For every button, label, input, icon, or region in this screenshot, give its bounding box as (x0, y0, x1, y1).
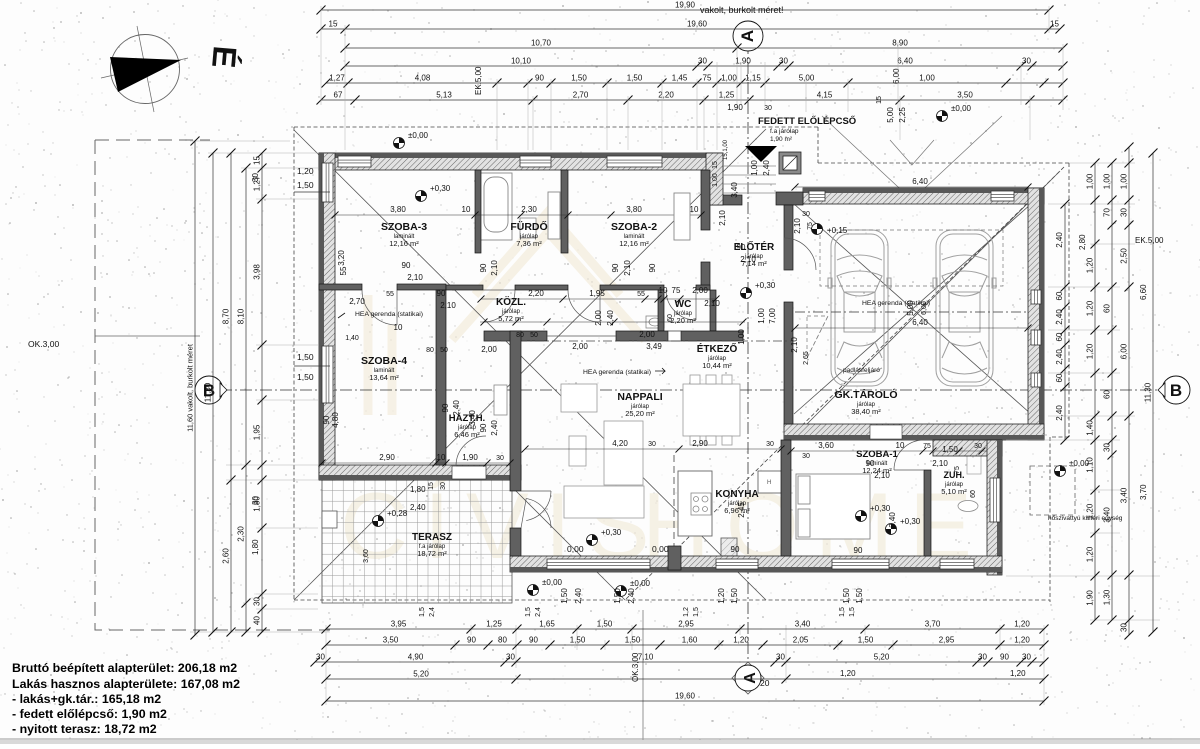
svg-text:1,20: 1,20 (1010, 669, 1026, 678)
door házt.h. to terrace opening (452, 466, 486, 479)
roof diagonal to bottom-right (794, 171, 1060, 437)
svg-text:1,50: 1,50 (730, 588, 739, 604)
svg-text:3,95: 3,95 (391, 620, 407, 629)
elevation mark (886, 517, 921, 535)
wall zuh north jog (933, 440, 1002, 456)
svg-text:B: B (1170, 381, 1182, 400)
svg-text:1,50: 1,50 (570, 636, 586, 645)
dim left col3 (222, 149, 236, 637)
svg-text:2,40: 2,40 (606, 310, 615, 326)
window zuh south (940, 559, 974, 569)
svg-text:0,00: 0,00 (567, 544, 584, 554)
room label SZOBA-1 (856, 449, 898, 475)
svg-text:2,10: 2,10 (790, 337, 799, 353)
door konyha south (716, 559, 758, 569)
wall szoba-2 / előtér upper (701, 170, 710, 230)
room label ELŐTÉR (734, 240, 775, 268)
internal dim line nappali (525, 448, 781, 450)
roof diagonal long A (294, 130, 766, 600)
svg-text:2,80: 2,80 (1078, 234, 1087, 250)
svg-text:3,70: 3,70 (925, 620, 941, 629)
section axis A vertical (747, 22, 749, 692)
section marker A top (733, 21, 763, 51)
svg-text:3,60: 3,60 (363, 549, 370, 563)
internal dim line közl bottom row (481, 319, 488, 326)
svg-text:18,72 m²: 18,72 m² (417, 549, 447, 558)
svg-text:2,05: 2,05 (793, 636, 809, 645)
outer wall west (319, 153, 335, 480)
svg-text:30: 30 (978, 653, 987, 662)
svg-text:4,80: 4,80 (331, 412, 340, 428)
terrace TERASZ tile grid (322, 480, 512, 603)
section axis B horizontal (200, 389, 1185, 391)
svg-text:12,16 m²: 12,16 m² (389, 239, 419, 248)
svg-text:90: 90 (611, 263, 620, 272)
dim top row3 (341, 39, 1068, 53)
svg-text:3,40: 3,40 (888, 512, 897, 528)
garage roof diagonal 1 (794, 204, 1031, 414)
svg-text:1,95: 1,95 (253, 424, 262, 440)
svg-text:1,40: 1,40 (345, 335, 359, 342)
shower zuh (958, 449, 981, 512)
room label ÉTKEZŐ (697, 342, 738, 370)
svg-text:5,20: 5,20 (413, 670, 429, 679)
svg-text:+0,30: +0,30 (870, 504, 891, 513)
svg-text:1,27: 1,27 (329, 74, 345, 83)
svg-text:30: 30 (779, 57, 788, 66)
svg-text:1,50: 1,50 (297, 372, 314, 382)
door zuh east (990, 478, 1000, 522)
radiator előtér (674, 193, 690, 240)
dim top row1 (317, 1, 1054, 15)
outer wall north main (319, 153, 723, 170)
eaves outline dashed (294, 127, 1069, 602)
roof hip diagonal dashed (625, 167, 1064, 600)
svg-text:11,30: 11,30 (1144, 382, 1153, 402)
svg-text:15: 15 (329, 20, 338, 29)
svg-text:30: 30 (1120, 208, 1129, 217)
svg-text:hőszivattyú kültéri egység: hőszivattyú kültéri egység (1048, 515, 1123, 522)
svg-text:1,20: 1,20 (1086, 257, 1095, 273)
wall előtér east (784, 205, 793, 270)
svg-text:8,10: 8,10 (237, 308, 246, 324)
wall étkező north right (681, 331, 743, 341)
svg-text:3,70: 3,70 (1139, 484, 1148, 500)
wall konyha / szoba-1 (781, 440, 791, 556)
svg-text:90: 90 (479, 263, 488, 272)
svg-text:1,90: 1,90 (1086, 590, 1095, 606)
svg-text:10,44 m²: 10,44 m² (702, 361, 732, 370)
svg-text:2,10: 2,10 (623, 260, 632, 276)
svg-text:1,50: 1,50 (560, 588, 569, 604)
porch roof valley lines (822, 116, 1002, 200)
dim bottom row2 (322, 636, 1049, 650)
svg-text:1,20: 1,20 (733, 636, 749, 645)
internal dim line közl top row (481, 298, 716, 300)
svg-text:80: 80 (498, 636, 507, 645)
dim top row2 (317, 20, 1065, 34)
washbasin fürdő (520, 218, 536, 238)
svg-text:1,50: 1,50 (297, 180, 314, 190)
internal dim line garage top (795, 186, 1028, 188)
svg-text:30: 30 (1022, 57, 1031, 66)
svg-text:2,10: 2,10 (718, 210, 727, 226)
svg-text:1,5: 1,5 (849, 607, 856, 617)
svg-text:30: 30 (802, 211, 810, 218)
elevation mark (937, 104, 972, 122)
svg-text:60: 60 (1103, 304, 1112, 313)
dim right col4 (1120, 143, 1134, 640)
svg-text:90: 90 (737, 243, 746, 252)
window nappali south (547, 559, 650, 569)
svg-text:1,20: 1,20 (1086, 300, 1095, 316)
elevation mark (856, 504, 891, 522)
svg-text:1,50: 1,50 (597, 620, 613, 629)
north compass (101, 26, 188, 112)
corner window north leg (338, 156, 371, 167)
svg-text:2,50: 2,50 (1120, 248, 1129, 264)
room label KONYHA (715, 489, 758, 515)
heat pump dashed box (1030, 466, 1075, 515)
svg-text:2,40: 2,40 (627, 588, 636, 604)
room label KÖZL. (496, 295, 526, 323)
door szoba-2 (568, 290, 600, 322)
svg-text:1,00: 1,00 (1120, 173, 1129, 189)
svg-text:+0,15: +0,15 (827, 226, 848, 235)
svg-text:15: 15 (712, 161, 719, 169)
svg-text:75: 75 (807, 222, 814, 230)
svg-text:30: 30 (764, 105, 772, 112)
wall garage south (784, 424, 1044, 440)
garage north gap 1 (809, 191, 825, 201)
svg-text:3,98: 3,98 (253, 264, 262, 280)
svg-text:3,49: 3,49 (646, 342, 662, 351)
svg-text:+0,30: +0,30 (601, 528, 622, 537)
svg-text:SZOBA-2: SZOBA-2 (611, 221, 657, 233)
dim left col2 (204, 149, 218, 637)
svg-text:2,90: 2,90 (692, 439, 708, 448)
svg-text:7,10: 7,10 (638, 653, 654, 662)
svg-text:1,00: 1,00 (750, 160, 759, 176)
svg-text:13,64 m²: 13,64 m² (369, 373, 399, 382)
svg-text:±0,00: ±0,00 (542, 578, 563, 587)
svg-text:H: H (767, 480, 771, 486)
svg-text:30: 30 (974, 443, 982, 450)
svg-text:60: 60 (1055, 291, 1064, 300)
wall közl north 2 (515, 285, 568, 290)
garage east window 3 (1031, 373, 1041, 387)
svg-text:10,70: 10,70 (531, 39, 552, 48)
svg-text:15: 15 (253, 156, 262, 165)
svg-text:60: 60 (1103, 390, 1112, 399)
svg-text:5,13: 5,13 (436, 91, 452, 100)
svg-text:2,10: 2,10 (793, 218, 802, 234)
svg-text:1,50: 1,50 (855, 588, 864, 604)
svg-text:10: 10 (394, 323, 403, 332)
svg-text:2,00: 2,00 (692, 286, 708, 295)
svg-text:1,00: 1,00 (712, 173, 719, 187)
svg-text:+0,30: +0,30 (755, 281, 776, 290)
room label SZOBA-2 (611, 221, 657, 248)
svg-text:1,90 m²: 1,90 m² (770, 136, 793, 143)
svg-text:1,30: 1,30 (1103, 589, 1112, 605)
svg-text:3,40: 3,40 (795, 620, 811, 629)
házt.h. appliances (494, 385, 507, 415)
svg-text:1,50: 1,50 (625, 636, 641, 645)
svg-text:6,40: 6,40 (912, 318, 928, 327)
outer wall south (510, 556, 1002, 572)
wall szoba-3 / szoba-4 right (397, 284, 446, 290)
svg-text:1,45: 1,45 (672, 74, 688, 83)
kitchen counter (678, 471, 783, 556)
svg-text:1,20: 1,20 (1014, 636, 1030, 645)
svg-text:ÉTKEZŐ: ÉTKEZŐ (697, 342, 738, 355)
car 1 in garage (828, 230, 891, 386)
svg-text:2,70: 2,70 (573, 91, 589, 100)
svg-text:15: 15 (428, 482, 435, 490)
svg-text:30: 30 (1120, 623, 1129, 632)
svg-text:90: 90 (529, 636, 538, 645)
svg-text:2,10: 2,10 (874, 471, 890, 480)
svg-text:1,25: 1,25 (719, 91, 735, 100)
bottom scan band (0, 738, 1200, 740)
svg-text:75: 75 (923, 443, 931, 450)
beam axis étkező (484, 340, 793, 342)
svg-text:90: 90 (402, 261, 411, 270)
svg-text:2,10: 2,10 (704, 299, 720, 308)
internal dim line szoba-4 (322, 462, 510, 464)
entrance arrow triangle (745, 146, 777, 162)
svg-text:FEDETT ELŐLÉPCSŐ: FEDETT ELŐLÉPCSŐ (758, 115, 856, 127)
svg-text:90: 90 (1000, 653, 1009, 662)
svg-text:10: 10 (690, 205, 699, 214)
room label HÁZT.H. (449, 413, 485, 439)
svg-text:50: 50 (440, 347, 448, 354)
svg-text:1,00: 1,00 (919, 74, 935, 83)
section marker A bottom (732, 662, 770, 694)
svg-text:6,40: 6,40 (897, 57, 913, 66)
svg-text:90: 90 (731, 545, 740, 554)
room label TERASZ (412, 532, 452, 558)
svg-text:2,00: 2,00 (572, 342, 588, 351)
svg-text:30: 30 (496, 455, 504, 462)
svg-text:NAPPALI: NAPPALI (617, 391, 662, 403)
svg-text:20: 20 (760, 678, 770, 688)
svg-text:10: 10 (659, 286, 668, 295)
svg-text:2,40: 2,40 (1055, 309, 1064, 325)
svg-text:SZOBA-4: SZOBA-4 (361, 355, 407, 367)
svg-text:TERASZ: TERASZ (412, 532, 452, 543)
svg-text:2,00: 2,00 (639, 330, 655, 339)
svg-text:6,00: 6,00 (1120, 343, 1129, 359)
window szoba-2 north (607, 156, 662, 167)
svg-text:90: 90 (322, 415, 331, 424)
dim left col1 (186, 137, 200, 640)
svg-text:8,70: 8,70 (222, 308, 231, 324)
elevation mark (587, 528, 622, 546)
room label ZUH. (941, 470, 967, 496)
svg-text:40: 40 (253, 616, 262, 625)
svg-text:A: A (742, 672, 759, 684)
wall szoba-1 / zuh (924, 470, 931, 556)
svg-text:2,10: 2,10 (440, 301, 456, 310)
svg-text:+0,28: +0,28 (387, 509, 408, 518)
svg-text:90: 90 (467, 636, 476, 645)
svg-text:2,30: 2,30 (237, 526, 246, 542)
north needle (110, 57, 181, 92)
dim right col3 (1103, 159, 1117, 625)
svg-text:15: 15 (876, 96, 883, 104)
svg-text:90: 90 (866, 459, 875, 468)
svg-text:2,65: 2,65 (803, 351, 810, 365)
svg-text:5,10 m²: 5,10 m² (941, 487, 967, 496)
svg-text:GK.TÁROLÓ: GK.TÁROLÓ (835, 388, 898, 401)
car 2 in garage (933, 230, 996, 386)
svg-text:6,60: 6,60 (1139, 284, 1148, 300)
svg-text:0,00: 0,00 (652, 544, 669, 554)
svg-text:1,00: 1,00 (1103, 173, 1112, 189)
svg-text:19,60: 19,60 (687, 20, 708, 29)
svg-text:6,00: 6,00 (921, 301, 928, 315)
svg-text:3,80: 3,80 (390, 205, 406, 214)
dim bottom row1 (322, 620, 1049, 634)
svg-text:4,15: 4,15 (817, 91, 833, 100)
terrace door leaf 2 (521, 498, 551, 528)
beam dashdot through garage (795, 311, 1028, 313)
svg-text:80: 80 (516, 332, 524, 339)
svg-text:2,00: 2,00 (481, 345, 497, 354)
svg-text:12,16 m²: 12,16 m² (619, 239, 649, 248)
section marker B right (1158, 376, 1190, 404)
svg-text:2,10: 2,10 (740, 255, 756, 264)
svg-text:30: 30 (1103, 443, 1112, 452)
porch column (779, 152, 801, 174)
svg-text:EK.5,00: EK.5,00 (1135, 236, 1164, 245)
outer wall garage north (803, 188, 1044, 204)
svg-text:1,80: 1,80 (251, 539, 260, 555)
svg-text:1,00: 1,00 (721, 74, 737, 83)
svg-text:3,50: 3,50 (383, 636, 399, 645)
svg-text:55: 55 (386, 291, 394, 298)
svg-text:SZOBA-3: SZOBA-3 (381, 221, 427, 233)
svg-text:2,20: 2,20 (658, 91, 674, 100)
porch wall (706, 153, 723, 205)
wall szoba-2 / előtér lower (701, 262, 710, 290)
svg-text:±0,00: ±0,00 (951, 104, 972, 113)
nappali sofa group (561, 384, 644, 518)
svg-text:60: 60 (1055, 332, 1064, 341)
svg-text:±0,00: ±0,00 (408, 131, 429, 140)
svg-text:3,80: 3,80 (626, 205, 642, 214)
dim right col 11,30 (1144, 149, 1158, 637)
wall közl north 4 (696, 285, 710, 290)
svg-text:75: 75 (672, 286, 681, 295)
svg-text:1,20: 1,20 (297, 166, 314, 176)
svg-text:60: 60 (1055, 373, 1064, 382)
wall szoba-3 / szoba-4 left (319, 284, 362, 290)
garage east window 1 (1031, 290, 1041, 304)
svg-text:70: 70 (1103, 208, 1112, 217)
watermark logo chevron (368, 212, 645, 415)
svg-text:55: 55 (637, 291, 645, 298)
svg-text:30: 30 (506, 653, 515, 662)
svg-text:1,50: 1,50 (858, 636, 874, 645)
wall előtér north right (776, 192, 803, 205)
svg-text:60: 60 (970, 490, 977, 498)
stove symbol (691, 493, 711, 515)
wall közl / wc (658, 290, 664, 331)
window fürdő north (520, 156, 551, 167)
svg-text:1,5: 1,5 (839, 607, 846, 617)
svg-text:30: 30 (253, 597, 262, 606)
garage roof diagonal 2 (794, 204, 1031, 414)
door garage (784, 238, 816, 270)
svg-text:30: 30 (648, 441, 656, 448)
dim right col garage doors (1061, 200, 1070, 445)
internal dim line garage mid (795, 327, 1028, 329)
svg-text:5,20: 5,20 (874, 653, 890, 662)
elevation mark (394, 131, 429, 149)
porch steps (723, 166, 776, 193)
svg-text:HEA gerenda (statikai): HEA gerenda (statikai) (583, 369, 651, 376)
svg-text:3,40: 3,40 (1120, 487, 1129, 503)
svg-text:2,10: 2,10 (407, 273, 423, 282)
svg-text:KONYHA: KONYHA (715, 489, 758, 500)
svg-text:90: 90 (854, 546, 863, 555)
svg-text:30: 30 (1022, 653, 1031, 662)
room label SZOBA-4 (361, 355, 407, 382)
svg-text:30: 30 (316, 653, 325, 662)
site boundary dashed left (95, 140, 330, 630)
svg-text:6,46 m²: 6,46 m² (454, 430, 480, 439)
svg-text:3,40: 3,40 (730, 182, 739, 198)
svg-text:2,40: 2,40 (574, 588, 583, 604)
svg-text:2,40: 2,40 (1055, 349, 1064, 365)
svg-text:2,4: 2,4 (429, 607, 436, 617)
room label WC (670, 299, 696, 325)
svg-text:vakolt, burkolt méret!: vakolt, burkolt méret! (700, 5, 784, 15)
svg-text:4,08: 4,08 (415, 74, 431, 83)
svg-text:7,36 m²: 7,36 m² (516, 239, 542, 248)
svg-text:30: 30 (776, 653, 785, 662)
svg-text:90: 90 (535, 74, 544, 83)
svg-text:1,5: 1,5 (419, 607, 426, 617)
wall garage west (784, 302, 793, 424)
svg-text:1,20: 1,20 (1086, 343, 1095, 359)
svg-text:1,25: 1,25 (486, 620, 502, 629)
svg-text:1,5: 1,5 (525, 607, 532, 617)
outer wall east lower (987, 440, 1002, 575)
svg-text:1,20: 1,20 (840, 669, 856, 678)
svg-text:1,20: 1,20 (1014, 620, 1030, 629)
svg-text:6,40: 6,40 (912, 177, 928, 186)
corner window west leg (322, 163, 333, 202)
door wc (666, 290, 696, 320)
svg-text:2,00: 2,00 (594, 310, 603, 326)
svg-text:5,00: 5,00 (906, 300, 915, 316)
svg-text:2,40: 2,40 (1055, 232, 1064, 248)
window szoba-1 south (832, 559, 889, 569)
svg-text:30: 30 (802, 453, 810, 460)
svg-text:2,10: 2,10 (490, 260, 499, 276)
svg-text:HEA gerenda (statikai): HEA gerenda (statikai) (862, 300, 930, 307)
WC toilet (646, 316, 664, 328)
svg-text:50: 50 (530, 332, 538, 339)
svg-text:15,1,00: 15,1,00 (723, 139, 729, 160)
wall előtér north left (706, 195, 742, 205)
window szoba-4 west (322, 346, 333, 403)
svg-text:1,50: 1,50 (842, 588, 851, 604)
